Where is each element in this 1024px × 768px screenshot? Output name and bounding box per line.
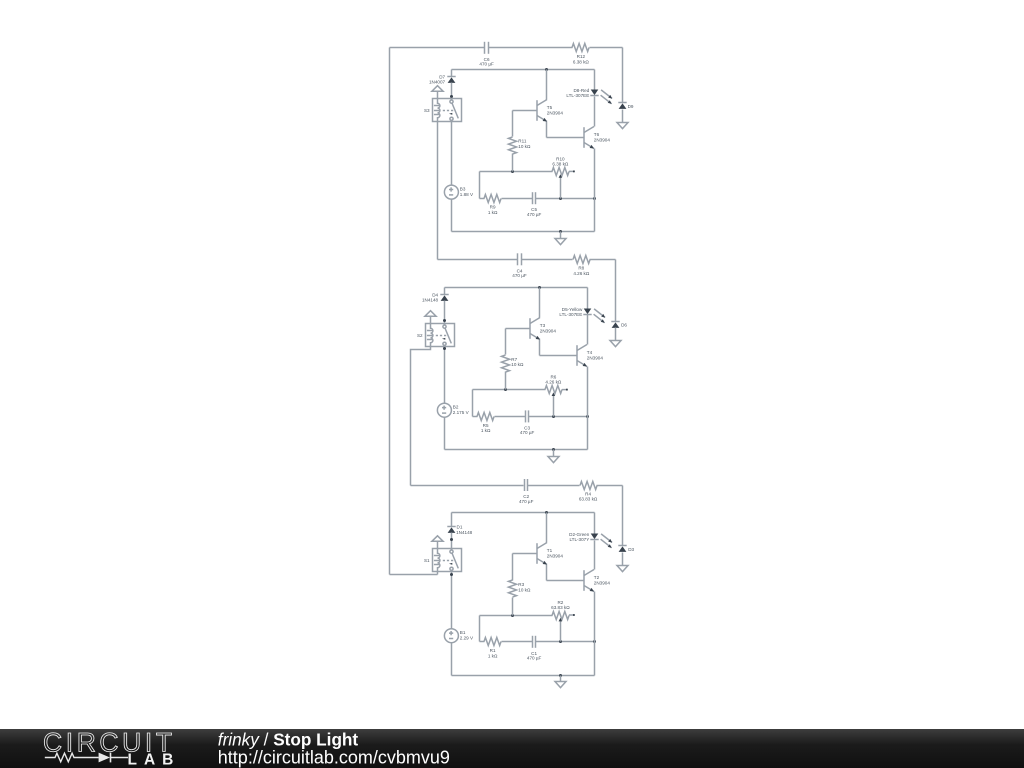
wire [451, 533, 453, 550]
capacitor C2 [519, 479, 534, 504]
wire [502, 198, 533, 200]
wire [594, 541, 596, 570]
wire [590, 259, 616, 261]
wire [560, 676, 562, 682]
junction [450, 95, 453, 98]
diode D1 [447, 524, 472, 535]
wire from S3 coil [437, 122, 439, 260]
LED D8 [566, 88, 612, 104]
diode D6 [611, 322, 619, 328]
capacitor C3 [520, 410, 535, 435]
wire S1 coil stub [437, 572, 439, 575]
wire [594, 592, 596, 676]
wire [495, 416, 526, 418]
footer title frinky / Stop Light [218, 730, 359, 750]
resistor R12 [572, 44, 589, 65]
wire [547, 580, 585, 582]
battery B2 [437, 403, 469, 417]
wire [594, 149, 596, 232]
wire [480, 171, 553, 173]
transistor T4 [577, 345, 603, 367]
wire [529, 416, 588, 418]
wire [451, 513, 453, 527]
wire [597, 485, 623, 487]
wire [479, 616, 481, 642]
junction [559, 674, 562, 677]
ground [617, 566, 628, 572]
wire [546, 122, 548, 138]
junction [450, 538, 453, 541]
capacitor C6 [479, 42, 494, 67]
wire [480, 641, 485, 643]
potentiometer R10 [552, 157, 575, 199]
wire [451, 572, 453, 629]
junction [545, 511, 548, 514]
battery B3 [444, 185, 474, 199]
CircuitLab logo CIRCUIT [43, 728, 176, 758]
wire [513, 110, 537, 112]
diode D9 [618, 103, 626, 109]
junction [545, 68, 548, 71]
wire [445, 449, 588, 451]
ground [555, 682, 566, 688]
wire [539, 288, 541, 318]
CircuitLab logo resistor-diode glyph [45, 753, 128, 763]
resistor R9 [484, 195, 501, 215]
wire [594, 97, 596, 127]
wire [451, 643, 453, 676]
transistor T3 [530, 318, 556, 340]
wire [615, 260, 617, 322]
wire [451, 70, 453, 77]
wire [512, 154, 514, 172]
wire [540, 355, 578, 357]
wire [411, 485, 524, 487]
relay S3 [424, 99, 462, 122]
resistor R11 [509, 137, 531, 154]
svg-text:LAB: LAB [128, 751, 181, 768]
junction [511, 170, 514, 173]
power flag [432, 536, 443, 549]
wire [444, 347, 446, 404]
wire [512, 598, 514, 616]
wire [590, 47, 623, 49]
resistor R4 [579, 482, 598, 502]
wire [472, 390, 474, 417]
wire [452, 512, 595, 514]
capacitor C5 [527, 192, 542, 217]
ground [617, 123, 628, 129]
wire to S1 coil [390, 574, 438, 576]
junction [443, 319, 446, 322]
diode D7 [429, 75, 456, 85]
diode D3 [618, 546, 626, 552]
wire [505, 372, 507, 390]
transistor T2 [584, 570, 610, 592]
wire [622, 48, 624, 103]
potentiometer R6 [545, 375, 568, 417]
wire [546, 565, 548, 581]
wire [547, 137, 585, 139]
wire [506, 328, 530, 330]
wire [473, 389, 546, 391]
wire [480, 615, 553, 617]
junction [450, 573, 453, 576]
resistor R3 [509, 580, 531, 597]
junction [443, 347, 446, 350]
wire [594, 70, 596, 90]
junction [538, 286, 541, 289]
wire [622, 110, 624, 123]
label D9 [628, 104, 634, 109]
wire [480, 198, 485, 200]
junction [586, 415, 589, 418]
resistor R5 [477, 413, 494, 434]
ground [548, 457, 559, 463]
footer bar [0, 729, 1024, 768]
wire [444, 301, 446, 325]
junction [593, 197, 596, 200]
diode D4 [422, 293, 449, 303]
junction [552, 448, 555, 451]
wire rail left [389, 48, 391, 575]
wire [451, 83, 453, 100]
wire [444, 418, 446, 450]
wire from S2 coil [411, 347, 431, 486]
LED D2 [569, 532, 612, 548]
power flag [432, 86, 443, 99]
wire [615, 328, 617, 341]
wire [546, 70, 548, 100]
ground [555, 239, 566, 245]
wire [479, 172, 481, 199]
junction [559, 230, 562, 233]
wire [622, 486, 624, 546]
wire [560, 232, 562, 239]
junction [593, 640, 596, 643]
wire [587, 315, 589, 345]
wire [587, 367, 589, 450]
wire [594, 513, 596, 534]
wire [539, 340, 541, 356]
wire [587, 288, 589, 309]
capacitor C1 [527, 636, 542, 661]
wire [451, 122, 453, 186]
svg-text:http://circuitlab.com/cvbmvu9: http://circuitlab.com/cvbmvu9 [218, 747, 450, 767]
potentiometer R2 [551, 600, 575, 641]
resistor R7 [502, 355, 524, 372]
junction [552, 415, 555, 418]
wire [513, 553, 537, 555]
wire [536, 641, 595, 643]
wire [444, 288, 446, 295]
wire [622, 553, 624, 566]
wire [536, 198, 595, 200]
footer url [218, 747, 450, 767]
battery B1 [444, 629, 474, 643]
transistor T5 [537, 100, 563, 122]
label D6 [621, 323, 627, 328]
wire [489, 47, 573, 49]
ground [610, 341, 621, 347]
resistor R8 [573, 256, 590, 277]
wire [445, 287, 588, 289]
wire [451, 200, 453, 232]
LED D5 [559, 307, 605, 323]
junction [511, 614, 514, 617]
CircuitLab logo LAB [128, 751, 181, 768]
relay S1 [424, 549, 462, 572]
wire [553, 450, 555, 457]
wire [522, 259, 573, 261]
junction [559, 197, 562, 200]
wire [473, 416, 478, 418]
wire [390, 47, 485, 49]
resistor R1 [484, 638, 501, 659]
wire [512, 111, 514, 137]
wire [452, 675, 595, 677]
wire [452, 69, 595, 71]
transistor T1 [537, 543, 563, 565]
power flag [425, 311, 436, 324]
wire [438, 259, 518, 261]
relay S2 [417, 324, 455, 347]
wire [505, 329, 507, 355]
wire [452, 231, 595, 233]
wire [502, 641, 533, 643]
wire [528, 485, 580, 487]
junction [504, 388, 507, 391]
wire [512, 554, 514, 581]
wire [546, 513, 548, 543]
label D3 [628, 547, 634, 552]
transistor T6 [584, 127, 610, 149]
junction [559, 640, 562, 643]
capacitor C4 [512, 253, 527, 278]
